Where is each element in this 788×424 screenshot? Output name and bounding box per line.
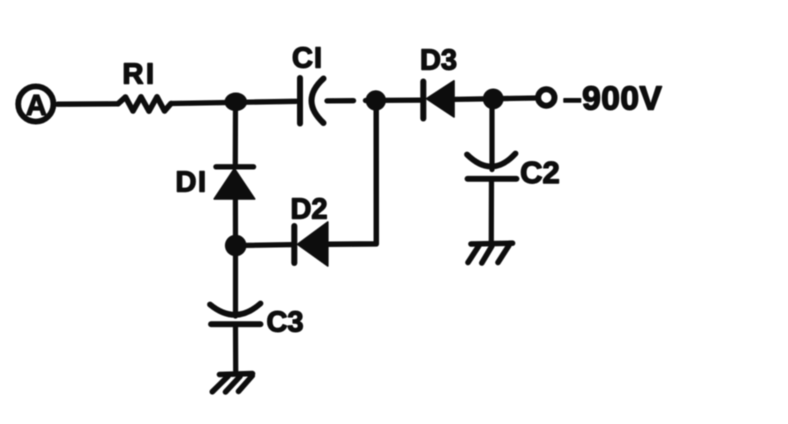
diode D2 [294, 222, 328, 266]
wire node E down to C3 [233, 256, 238, 316]
capacitor C2 [467, 154, 517, 179]
wire D3 to node D [455, 98, 537, 99]
svg-text:D2: D2 [290, 193, 327, 225]
svg-text:RI: RI [123, 59, 157, 91]
svg-text:A: A [26, 90, 47, 122]
junction node B [225, 93, 248, 112]
wire C1 to node C [327, 97, 420, 103]
wire A to R1 [58, 101, 119, 107]
terminal -900V [538, 89, 554, 105]
wire D2 to node C [328, 100, 376, 244]
wire node B down to D1 [233, 102, 238, 164]
wire R1 to node B [171, 101, 296, 103]
wire C2 to ground [489, 182, 494, 244]
junction node D [483, 89, 504, 110]
svg-text:D3: D3 [420, 44, 457, 76]
svg-text:DI: DI [176, 166, 208, 198]
junction node E [225, 235, 247, 257]
resistor R1 [118, 97, 171, 111]
capacitor C1 [300, 78, 324, 124]
svg-text:CI: CI [292, 42, 323, 74]
svg-text:–900V: –900V [563, 81, 663, 118]
wire D1 to node E [233, 199, 238, 245]
svg-text:C2: C2 [520, 155, 560, 190]
node A terminal [18, 86, 53, 121]
capacitor C3 [210, 304, 261, 325]
wire node D down to C2 [489, 103, 494, 170]
ground (C2) [468, 243, 513, 263]
junction node C [366, 90, 386, 110]
diode D3 [423, 81, 454, 119]
diode D1 [214, 167, 255, 199]
svg-text:C3: C3 [266, 306, 303, 338]
wire C3 to ground [233, 327, 238, 371]
ground (C3) [212, 374, 252, 392]
wire node E to D2 [246, 242, 292, 248]
